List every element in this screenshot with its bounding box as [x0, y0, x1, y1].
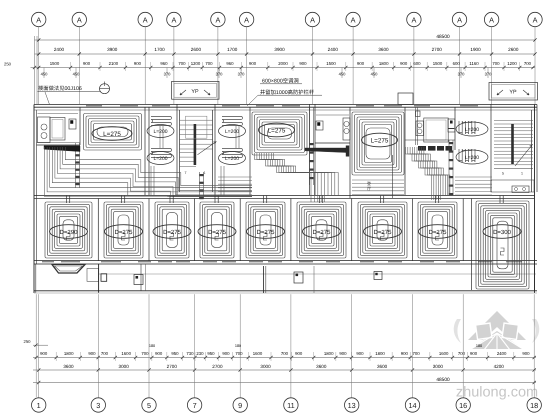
axis circle A#3: [138, 12, 152, 26]
label ellipse bottom 8: [419, 225, 457, 239]
dark wedge left: [44, 146, 80, 152]
svg-text:14: 14: [408, 401, 416, 410]
svg-text:厅: 厅: [367, 186, 371, 191]
label ellipse bottom 5: [247, 225, 285, 239]
note rail leader: [247, 95, 258, 106]
feed pipes room 1: [66, 196, 68, 204]
coil cluster C2: [222, 149, 243, 158]
coil spiral bottom room 5: [246, 202, 285, 258]
svg-text:1200: 1200: [507, 61, 517, 66]
coil cluster B2: [151, 149, 172, 158]
svg-text:48500: 48500: [436, 34, 450, 40]
coil spiral bottom room 9: [476, 201, 529, 289]
axis circle A#2: [72, 12, 86, 26]
svg-text:2400: 2400: [54, 47, 65, 52]
svg-text:450: 450: [73, 72, 81, 77]
coil cluster F1: [459, 121, 475, 134]
bath right fridge: [424, 118, 448, 142]
bottom band wall x=463.2: [462, 199, 464, 262]
svg-text:1800: 1800: [324, 351, 334, 356]
svg-text:D=275: D=275: [115, 229, 134, 236]
axis circle A#7: [305, 12, 319, 26]
top segment dims: [37, 52, 40, 55]
svg-text:230: 230: [196, 351, 204, 356]
axis circle 14: [412, 294, 414, 397]
svg-text:600×800空调洞: 600×800空调洞: [262, 78, 299, 85]
coil spiral bottom room 1: [45, 202, 92, 258]
label ellipse bottom 2: [105, 225, 143, 239]
kitchen right wall: [315, 142, 350, 144]
svg-text:L=200: L=200: [465, 155, 479, 161]
svg-text:YP: YP: [509, 90, 517, 96]
coil cluster F2: [459, 149, 475, 162]
svg-text:A: A: [310, 15, 315, 24]
kitchen left box: [69, 119, 76, 129]
label ellipse D: [259, 123, 295, 137]
svg-text:A: A: [351, 15, 356, 24]
svg-text:3600: 3600: [63, 364, 74, 369]
bottom band wall x=351.7: [351, 199, 353, 262]
svg-text:3600: 3600: [377, 364, 388, 369]
svg-text:11: 11: [287, 401, 295, 410]
svg-text:450: 450: [371, 72, 379, 77]
svg-text:700: 700: [413, 351, 421, 356]
svg-text:3000: 3000: [119, 364, 130, 369]
svg-text:600: 600: [453, 61, 461, 66]
riser column stair: [199, 172, 201, 199]
svg-text:180: 180: [476, 344, 482, 348]
wall x=491: [490, 104, 492, 192]
axis circle 13: [351, 294, 353, 397]
entry box 2: [134, 275, 143, 285]
svg-text:700: 700: [235, 351, 243, 356]
svg-text:zhulong.com: zhulong.com: [456, 385, 538, 401]
wall x=145: [144, 107, 146, 195]
svg-text:1200: 1200: [191, 61, 201, 66]
svg-text:450: 450: [339, 72, 347, 77]
axis circle A#6: [239, 12, 253, 26]
terrace box right: [374, 272, 382, 280]
dark wedge right: [305, 148, 346, 153]
svg-text:A: A: [457, 15, 462, 24]
corridor wall right unit: [392, 155, 394, 198]
svg-text:A: A: [215, 15, 220, 24]
svg-text:A: A: [533, 15, 538, 24]
svg-text:180: 180: [149, 344, 155, 348]
stairwell left: [180, 119, 214, 121]
coil cluster C1: [222, 117, 243, 126]
YP canopy right box: [489, 83, 538, 101]
svg-text:D=275: D=275: [257, 229, 276, 236]
svg-text:3900: 3900: [107, 47, 118, 52]
watermark zhulong logo: [454, 311, 540, 350]
label ellipse bottom 4: [198, 225, 236, 239]
note underline: [38, 91, 101, 93]
label ellipse E: [362, 133, 398, 147]
wall x=215: [214, 104, 216, 195]
svg-text:1800: 1800: [64, 351, 74, 356]
svg-text:D=290: D=290: [60, 229, 79, 236]
svg-text:5: 5: [502, 172, 504, 176]
axis circle 9: [239, 294, 241, 397]
YP canopy left box: [172, 81, 219, 99]
svg-text:1500: 1500: [50, 61, 60, 66]
svg-text:A: A: [244, 15, 249, 24]
svg-text:L=275: L=275: [371, 137, 389, 144]
top protrusion box: [398, 93, 413, 105]
feed pipes room 6: [319, 196, 321, 204]
kitchen right shelf: [316, 114, 349, 116]
terrace dark pair: [263, 266, 265, 293]
bath right wall pair: [415, 107, 417, 145]
mid corridor wall: [34, 195, 535, 197]
svg-text:5: 5: [147, 401, 151, 410]
svg-text:900: 900: [400, 61, 408, 66]
left axis double line: [35, 294, 37, 397]
top segment dim line: [35, 53, 536, 55]
bottom band wall x=149: [148, 199, 150, 262]
svg-text:900: 900: [155, 351, 163, 356]
label ellipse bottom 7: [364, 225, 402, 239]
wall x=212.5: [212, 110, 214, 192]
svg-text:960: 960: [226, 61, 234, 66]
stairwell right: [494, 120, 533, 122]
svg-text:3600: 3600: [316, 364, 327, 369]
bottom axis dims: [33, 369, 536, 371]
svg-text:D=275: D=275: [163, 229, 182, 236]
axis circle 1: [38, 294, 40, 397]
feed pipes room 7: [380, 196, 382, 204]
svg-text:1900: 1900: [470, 47, 481, 52]
svg-text:700: 700: [458, 351, 466, 356]
svg-text:960: 960: [160, 61, 168, 66]
svg-text:900: 900: [339, 351, 347, 356]
svg-text:A: A: [77, 15, 82, 24]
axis circle A#4: [167, 12, 181, 26]
entry box 1: [101, 274, 107, 282]
wall x=250: [249, 107, 251, 195]
coil spiral bottom room 6: [297, 202, 346, 258]
feed pipes room 2: [121, 196, 123, 204]
coil spiral bottom room 8: [418, 202, 457, 258]
svg-text:730: 730: [186, 351, 194, 356]
wall x=455: [454, 107, 456, 150]
wall x=179.5: [179, 110, 181, 192]
coil spiral room A: [84, 114, 142, 151]
balcony trapezoid: [52, 265, 85, 274]
svg-text:A: A: [36, 15, 41, 24]
svg-text:3900: 3900: [274, 47, 285, 52]
svg-text:1700: 1700: [154, 47, 165, 52]
ground terrace line: [34, 290, 537, 292]
svg-text:700: 700: [492, 61, 500, 66]
axis circle A#8: [346, 12, 360, 26]
entry box 3: [294, 272, 303, 283]
svg-text:1600: 1600: [439, 351, 449, 356]
svg-text:3000: 3000: [433, 364, 444, 369]
coil spiral bottom room 4: [200, 202, 234, 258]
top total dim line: [35, 39, 536, 41]
bottom band wall x=240.2: [239, 199, 241, 262]
svg-text:1800: 1800: [375, 351, 385, 356]
svg-text:900: 900: [295, 351, 303, 356]
balcony left outline: [35, 264, 37, 293]
feed pipes room 9: [499, 196, 501, 204]
top small dims: [31, 67, 536, 69]
svg-text:900: 900: [299, 61, 307, 66]
axis circle 16: [462, 294, 464, 397]
svg-text:900: 900: [401, 351, 409, 356]
axis circle A#10: [452, 12, 466, 26]
coil cluster B1: [151, 117, 172, 126]
axis circle A#1: [32, 12, 46, 26]
svg-text:250: 250: [24, 339, 32, 344]
YP arrows left: [180, 90, 186, 95]
riser column right: [448, 140, 450, 195]
axis circle A#5: [211, 12, 225, 26]
svg-text:900: 900: [356, 351, 364, 356]
YP arrows right: [497, 90, 503, 95]
label ellipse bottom 3: [153, 225, 191, 239]
svg-text:2100: 2100: [109, 61, 119, 66]
svg-text:1160: 1160: [469, 61, 479, 66]
pipe cascade right: [406, 147, 432, 200]
feed pipes room 5: [263, 196, 265, 204]
bottom room wall: [34, 260, 537, 262]
svg-text:YP: YP: [191, 89, 199, 95]
svg-text:1500: 1500: [433, 61, 443, 66]
label ellipse bottom 6: [303, 225, 341, 239]
label ellipse bottom 1: [50, 225, 88, 239]
svg-text:370: 370: [238, 72, 246, 77]
svg-text:D=275: D=275: [313, 229, 332, 236]
axis circle 5: [148, 294, 150, 397]
outer right wall: [534, 105, 536, 294]
svg-text:L=200: L=200: [225, 156, 239, 162]
svg-text:L=275: L=275: [103, 131, 121, 138]
pipe cascade left unit: [45, 147, 253, 197]
note leader: [45, 92, 50, 105]
bottom small dims: [33, 357, 536, 359]
bottom axis circles: [32, 294, 542, 412]
kitchen right counter: [343, 118, 350, 140]
coil spiral bottom room 7: [358, 202, 407, 258]
svg-text:2700: 2700: [432, 47, 443, 52]
wall x=531.5: [531, 110, 533, 192]
svg-text:1: 1: [37, 401, 41, 410]
kitchen right box: [316, 121, 323, 130]
coil spiral room E: [352, 112, 404, 175]
svg-text:700: 700: [205, 61, 213, 66]
pipe pair B: [150, 166, 152, 196]
svg-text:2400: 2400: [497, 351, 507, 356]
svg-text:900: 900: [134, 61, 142, 66]
svg-text:3000: 3000: [260, 364, 271, 369]
svg-text:D=300: D=300: [493, 229, 512, 236]
coil spiral room D: [252, 112, 307, 155]
svg-text:2600: 2600: [191, 47, 202, 52]
left extension lines: [34, 36, 36, 104]
svg-text:1500: 1500: [326, 61, 336, 66]
svg-text:3: 3: [96, 401, 100, 410]
svg-text:16: 16: [459, 401, 467, 410]
svg-text:370: 370: [458, 72, 466, 77]
svg-text:370: 370: [216, 72, 224, 77]
svg-text:370: 370: [485, 72, 493, 77]
wall x=177: [176, 104, 178, 195]
svg-text:900: 900: [40, 351, 48, 356]
svg-text:700: 700: [141, 351, 149, 356]
wall x=80: [79, 107, 81, 145]
bottom wall windows: [42, 261, 54, 263]
svg-text:1600: 1600: [121, 351, 131, 356]
bath right counter: [416, 121, 424, 136]
svg-text:370: 370: [164, 72, 172, 77]
svg-text:1800: 1800: [379, 61, 389, 66]
coil spiral bottom room 3: [155, 202, 189, 258]
svg-text:L=200: L=200: [153, 129, 167, 135]
svg-text:D=275: D=275: [429, 229, 448, 236]
wall x=315: [314, 104, 316, 195]
svg-text:楼面做法见00J106: 楼面做法见00J106: [38, 85, 82, 92]
svg-text:900: 900: [357, 61, 365, 66]
wall x=350: [349, 107, 351, 198]
axis circle A#12: [528, 12, 542, 26]
svg-text:250: 250: [4, 62, 12, 67]
bottom band wall x=290.9: [290, 199, 292, 262]
svg-text:2400: 2400: [328, 47, 339, 52]
svg-text:700: 700: [524, 61, 532, 66]
top wall windows: [86, 105, 102, 107]
riser column center: [309, 107, 311, 185]
kitchen left top shelf: [38, 113, 79, 115]
terrace verticals: [140, 264, 142, 291]
svg-text:9: 9: [238, 401, 242, 410]
feed pipes room 3: [169, 196, 171, 204]
axis circle 18: [533, 294, 535, 397]
svg-text:L=275: L=275: [268, 127, 286, 134]
svg-text:2000: 2000: [278, 61, 288, 66]
svg-text:A: A: [411, 15, 416, 24]
pipe pair C: [220, 166, 222, 196]
svg-text:900: 900: [83, 61, 91, 66]
note detail circle: [100, 84, 110, 94]
top axis circles row: [32, 12, 543, 104]
axis circle 11: [290, 294, 292, 397]
svg-text:700: 700: [101, 351, 109, 356]
svg-text:900: 900: [249, 61, 257, 66]
bottom band wall x=194.6: [194, 199, 196, 262]
svg-text:900: 900: [470, 351, 478, 356]
label ellipse bottom 9: [483, 225, 521, 239]
coil spiral bottom room 2: [104, 202, 143, 258]
svg-text:2700: 2700: [212, 364, 223, 369]
svg-text:600: 600: [413, 61, 421, 66]
axis circle 7: [194, 294, 196, 397]
svg-text:48500: 48500: [436, 377, 450, 383]
svg-text:450: 450: [41, 72, 49, 77]
kitchen left counter: [38, 117, 51, 143]
pipe cascade center: [255, 153, 312, 202]
svg-text:700: 700: [281, 351, 289, 356]
svg-text:3600: 3600: [378, 47, 389, 52]
wall x=309.5: [309, 104, 311, 195]
svg-text:L=200: L=200: [225, 129, 239, 135]
svg-text:7: 7: [185, 171, 187, 175]
svg-text:950: 950: [207, 351, 215, 356]
svg-text:D=275: D=275: [374, 229, 393, 236]
bottom band wall x=471.5: [471, 199, 473, 262]
svg-text:900: 900: [522, 351, 530, 356]
bottom band wall x=98.3: [97, 199, 99, 262]
axis circle A#9: [407, 12, 421, 26]
kitchen left wall: [37, 144, 81, 146]
svg-text:A: A: [489, 15, 494, 24]
svg-text:L=200: L=200: [465, 127, 479, 133]
wall x=149: [148, 107, 150, 195]
label ellipse A: [92, 127, 132, 141]
outer left wall: [33, 105, 35, 294]
svg-text:1600: 1600: [253, 351, 263, 356]
svg-text:2700: 2700: [167, 364, 178, 369]
svg-text:L=200: L=200: [153, 156, 167, 162]
svg-text:1: 1: [204, 171, 206, 175]
bottom total line: [33, 382, 536, 384]
svg-text:2600: 2600: [508, 47, 519, 52]
svg-text:18: 18: [530, 401, 538, 410]
note rail underline: [258, 94, 322, 96]
dark wedge blocks right: [418, 146, 426, 151]
corridor pipe runs: [218, 176, 252, 178]
svg-text:13: 13: [348, 401, 356, 410]
axis circle A#11: [484, 12, 498, 26]
bath right small: [448, 119, 455, 132]
bath right wall: [405, 139, 455, 141]
svg-text:1: 1: [521, 172, 523, 176]
right room extension wall: [471, 261, 473, 290]
svg-text:1700: 1700: [227, 47, 238, 52]
bottom band wall x=412.5: [412, 199, 414, 262]
axis circle 3: [97, 294, 99, 397]
kitchen left fridge: [50, 118, 65, 141]
note AC hole underline: [260, 83, 302, 85]
outer top wall: [34, 104, 537, 106]
svg-text:7: 7: [193, 401, 197, 410]
wall x=405: [404, 107, 406, 195]
svg-text:900: 900: [222, 351, 230, 356]
riser column left: [75, 143, 77, 188]
svg-text:4200: 4200: [494, 364, 505, 369]
svg-text:950: 950: [171, 351, 179, 356]
feed pipes room 4: [214, 196, 216, 204]
svg-text:D=275: D=275: [208, 229, 227, 236]
bath right corner box: [416, 111, 421, 117]
svg-text:A: A: [143, 15, 148, 24]
svg-text:900: 900: [88, 351, 96, 356]
feed pipes room 8: [435, 196, 437, 204]
svg-text:700: 700: [178, 61, 186, 66]
svg-text:A: A: [171, 15, 176, 24]
